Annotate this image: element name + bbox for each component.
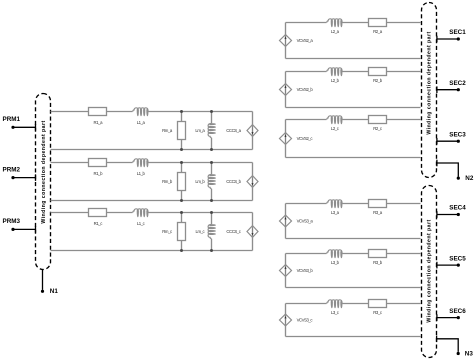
svg-text:SEC1: SEC1 — [449, 29, 466, 36]
resistor R2_a — [369, 19, 387, 35]
port SEC2 — [437, 80, 466, 93]
wire row c bottom — [51, 250, 253, 252]
svg-text:Rm_a: Rm_a — [162, 128, 173, 133]
svg-text:L3_c: L3_c — [331, 310, 340, 315]
svg-text:R3_c: R3_c — [373, 310, 383, 315]
svg-text:L2_a: L2_a — [331, 29, 340, 34]
svg-text:R3_a: R3_a — [373, 210, 383, 215]
inductor Lm_c — [196, 213, 216, 251]
svg-text:CCCS_a: CCCS_a — [226, 128, 241, 133]
wire row c right edge — [252, 213, 254, 251]
inductor L1_b — [133, 159, 149, 176]
svg-text:N1: N1 — [50, 288, 59, 295]
svg-text:L1_b: L1_b — [137, 171, 146, 176]
port PRM2 — [3, 166, 36, 181]
resistor R3_c — [369, 300, 387, 316]
winding connection dependent part box (primary) — [36, 94, 51, 270]
svg-text:Winding connection dependent p: Winding connection dependent part — [427, 31, 433, 134]
svg-text:Rm_b: Rm_b — [162, 179, 173, 184]
wire row a bottom — [51, 149, 253, 151]
inductor L1_c — [133, 209, 149, 226]
svg-text:Lm_a: Lm_a — [195, 128, 205, 133]
svg-text:PRM2: PRM2 — [3, 166, 21, 173]
svg-text:Winding connection dependent p: Winding connection dependent part — [427, 219, 433, 322]
junction dots row a — [180, 110, 213, 151]
svg-text:SEC2: SEC2 — [449, 80, 466, 87]
inductor L2_b — [327, 68, 343, 83]
port N3 — [437, 336, 474, 358]
svg-text:SEC6: SEC6 — [449, 308, 466, 315]
wire VCVS3_c row bottom — [286, 336, 421, 338]
svg-text:L1_c: L1_c — [137, 221, 146, 226]
svg-text:SEC3: SEC3 — [449, 131, 466, 138]
svg-text:N2: N2 — [465, 175, 474, 182]
wire VCVS2_c row bottom — [286, 157, 421, 159]
svg-text:PRM3: PRM3 — [3, 218, 21, 225]
svg-text:VCVS2_c: VCVS2_c — [297, 136, 314, 141]
wire VCVS3_b row left edge — [285, 254, 287, 288]
resistor R2_c — [369, 116, 387, 132]
port PRM1 — [3, 116, 36, 131]
inductor Lm_a — [195, 112, 215, 150]
wire VCVS3_a row bottom — [286, 238, 421, 240]
wire VCVS2_b row top — [286, 71, 421, 73]
inductor Lm_b — [195, 163, 215, 201]
svg-text:Lm_b: Lm_b — [195, 179, 205, 184]
wire VCVS2_b row left edge — [285, 72, 287, 108]
wire VCVS3_c row left edge — [285, 304, 287, 337]
wire VCVS2_a row bottom — [286, 58, 421, 60]
port N1 — [41, 269, 58, 295]
svg-text:R1_b: R1_b — [94, 171, 104, 176]
svg-text:VCVS2_a: VCVS2_a — [297, 38, 314, 43]
svg-text:CCCS_c: CCCS_c — [226, 229, 241, 234]
resistor Rm_b — [162, 163, 185, 201]
voltage source VCVS2_b — [280, 84, 314, 96]
svg-text:VCVS3_a: VCVS3_a — [297, 219, 314, 224]
resistor R1_b — [89, 159, 107, 176]
svg-text:Winding connection dependent p: Winding connection dependent part — [41, 120, 47, 223]
resistor R3_a — [369, 200, 387, 216]
resistor R3_b — [369, 250, 387, 266]
voltage source VCVS2_a — [280, 35, 314, 47]
svg-text:R1_a: R1_a — [94, 120, 104, 125]
current source CCCS_a — [226, 125, 258, 137]
wire VCVS2_a row top — [286, 22, 421, 24]
svg-text:L3_b: L3_b — [331, 260, 340, 265]
wire row c top — [51, 212, 253, 214]
svg-text:CCCS_b: CCCS_b — [226, 179, 241, 184]
svg-text:R1_c: R1_c — [94, 221, 104, 226]
winding connection dependent part box (secondary 1) — [422, 3, 437, 178]
current source CCCS_b — [226, 176, 258, 188]
inductor L3_b — [327, 250, 343, 265]
svg-text:SEC5: SEC5 — [449, 255, 466, 262]
voltage source VCVS3_b — [280, 265, 314, 277]
wire row b bottom — [51, 200, 253, 202]
svg-text:R2_c: R2_c — [373, 126, 383, 131]
wire VCVS3_c row top — [286, 303, 421, 305]
voltage source VCVS3_a — [280, 215, 314, 227]
wire VCVS3_a row top — [286, 203, 421, 205]
port SEC4 — [437, 205, 466, 218]
inductor L2_c — [327, 116, 343, 131]
wire row b top — [51, 162, 253, 164]
svg-text:R2_a: R2_a — [373, 29, 383, 34]
port SEC3 — [437, 131, 466, 144]
resistor R2_b — [369, 68, 387, 84]
svg-text:Rm_c: Rm_c — [162, 229, 173, 234]
port N2 — [437, 160, 474, 183]
wire row a top — [51, 111, 253, 113]
svg-text:L1_a: L1_a — [137, 120, 146, 125]
svg-text:PRM1: PRM1 — [3, 116, 21, 123]
resistor R1_c — [89, 209, 107, 226]
svg-text:L3_a: L3_a — [331, 210, 340, 215]
svg-text:N3: N3 — [465, 351, 474, 358]
wire VCVS2_a row left edge — [285, 23, 287, 59]
port PRM3 — [3, 218, 36, 233]
svg-text:R3_b: R3_b — [373, 260, 383, 265]
junction dots row c — [180, 211, 213, 252]
svg-text:VCVS3_b: VCVS3_b — [297, 268, 314, 273]
svg-text:L2_b: L2_b — [331, 78, 340, 83]
inductor L1_a — [133, 108, 149, 125]
wire VCVS3_a row left edge — [285, 204, 287, 239]
port SEC6 — [437, 308, 466, 321]
inductor L3_c — [327, 300, 343, 315]
port SEC1 — [437, 29, 466, 42]
junction dots row b — [180, 161, 213, 202]
inductor L3_a — [327, 200, 343, 215]
wire VCVS3_b row bottom — [286, 287, 421, 289]
voltage source VCVS2_c — [280, 133, 314, 145]
wire row b right edge — [252, 163, 254, 201]
port SEC5 — [437, 255, 466, 268]
wire VCVS3_b row top — [286, 253, 421, 255]
svg-text:VCVS3_c: VCVS3_c — [297, 318, 314, 323]
wire VCVS2_c row left edge — [285, 120, 287, 158]
svg-text:VCVS2_b: VCVS2_b — [297, 87, 314, 92]
resistor R1_a — [89, 108, 107, 125]
svg-text:R2_b: R2_b — [373, 78, 383, 83]
wire row a right edge — [252, 112, 254, 150]
wire VCVS2_b row bottom — [286, 107, 421, 109]
inductor L2_a — [327, 19, 343, 34]
svg-text:L2_c: L2_c — [331, 126, 340, 131]
resistor Rm_a — [162, 112, 185, 150]
wire VCVS2_c row top — [286, 119, 421, 121]
svg-text:Lm_c: Lm_c — [196, 229, 206, 234]
voltage source VCVS3_c — [280, 314, 314, 326]
winding connection dependent part box (secondary 2) — [422, 186, 437, 358]
svg-text:SEC4: SEC4 — [449, 205, 466, 212]
current source CCCS_c — [226, 226, 258, 238]
resistor Rm_c — [162, 213, 185, 251]
